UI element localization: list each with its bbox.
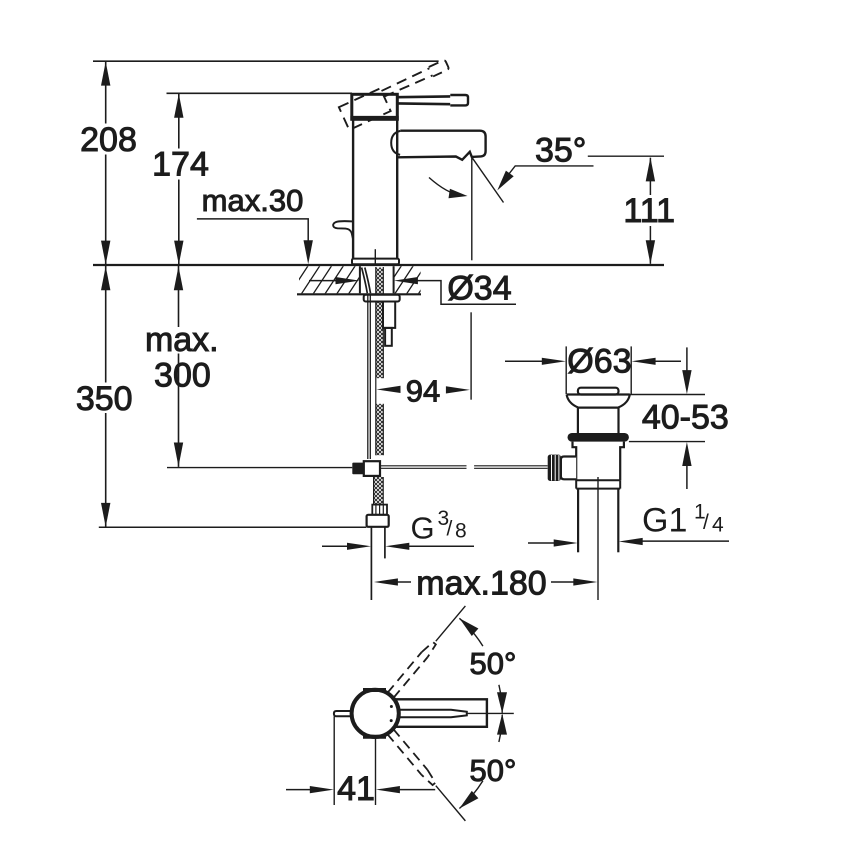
dimension max.180 line and arrows [395,581,411,583]
top view cartridge dots [390,705,393,708]
pop-up rod ball joint black block [352,463,364,475]
top view handle swung up 50 dashed [388,603,469,697]
spout outline [397,131,485,160]
arrow 50 upper at centerline [497,692,507,713]
hose lower band texture [374,477,384,505]
svg-text:300: 300 [154,357,211,395]
dimension 350 vertical line [105,266,107,527]
pop-up rod curve through counter [362,268,371,294]
aerator vertical reference line [471,157,473,260]
dimension 41 arrows [286,789,313,791]
arrow 111 bottom [646,240,655,264]
svg-text:94: 94 [406,374,440,409]
drain center rod and extension line [597,477,599,600]
svg-text:G: G [411,511,435,546]
handle block [352,94,398,119]
counter hatching [288,264,438,296]
counter bottom line [297,293,421,295]
top view pop-up stub [334,711,352,716]
dimension D34 left arrow [309,280,338,282]
svg-text:max.180: max.180 [416,565,546,603]
pop-up rod guide tube [383,302,395,328]
drain flange [567,395,630,408]
label G1 1/4 [642,501,724,540]
dimension max.300 vertical line [178,266,180,467]
braided hose texture bands [376,268,384,456]
dimension D34 right arrow and leader [394,277,418,284]
top view centerline right [467,712,514,714]
pop-up rod hook on body [333,221,353,238]
wire max.300 bottom reference line to hose joint [167,467,352,469]
dimension 41 extension lines [333,716,335,805]
hose lower band boundary [374,477,384,505]
arrow 208 top [101,62,110,86]
dimension 40-53 arrows [686,347,688,371]
wire top reference line at 208 level [93,60,439,62]
wire 35 label underline and leader [503,166,594,182]
svg-text:max.30: max.30 [202,183,304,218]
50 lower thin line [436,786,466,821]
svg-text:max.: max. [145,321,219,359]
arrow 208 bottom [101,241,110,265]
svg-text:Ø63: Ø63 [567,343,631,381]
drain tailpipe [577,489,579,553]
top view circle top flat [363,688,386,692]
handle lever end cap [450,95,468,105]
wire max.30 underline leader [197,219,308,245]
dimension G3/8 arrows [322,545,350,547]
faucet base flange [352,259,399,265]
svg-text:/: / [703,511,709,534]
svg-text:G1: G1 [642,502,687,540]
svg-text:40-53: 40-53 [642,399,729,437]
label G3/8 [411,507,467,546]
spout left end arc at body [391,131,400,155]
dimension 208 vertical line [105,61,107,265]
svg-text:Ø34: Ø34 [447,270,511,308]
arrow 350 bottom [101,503,110,527]
wire 94 right extension line [470,312,472,399]
drain neck [577,408,579,434]
drain body collar lines [576,480,620,488]
top view faucet body circle [352,690,399,737]
connector tube G3/8 [370,527,372,600]
svg-text:208: 208 [80,121,137,159]
50 upper thin line [436,606,466,641]
svg-text:174: 174 [152,146,209,184]
svg-text:8: 8 [455,520,467,543]
counter hole left edge [359,266,361,293]
top view handle swung down 50 dashed [387,729,468,823]
svg-text:35°: 35° [535,132,586,170]
wire 35 right reference line [588,155,664,157]
faucet body column [353,120,397,259]
dimension D63 extension lines [565,346,567,394]
dimension 50 upper arc [459,618,502,713]
arrow 111 top [646,157,655,181]
drain rod knurled nut [548,455,561,481]
drain body [573,442,624,481]
arrow 50 lower at line [459,791,478,809]
angle swing arc arrow [429,178,461,196]
arrowhead of 35 leader [497,171,513,191]
wire 174 reference line at handle top [167,92,353,94]
hose end ridged nipple [372,505,387,515]
svg-text:111: 111 [623,192,675,230]
counter hole right edge [393,266,395,293]
drain pop-up cap [578,388,619,395]
dimension 50 lower arc [459,715,502,809]
arrow 174 top [174,94,183,118]
svg-text:41: 41 [337,770,375,808]
dimension 94 arrows [377,386,401,393]
svg-text:50°: 50° [470,646,517,681]
faucet centerline tick above counter [374,249,376,264]
braided hose boundary lines [376,267,384,455]
drain seal ring (black) [568,433,629,442]
wire 350 bottom reference line [99,526,367,528]
svg-text:4: 4 [712,514,724,537]
dimension 174 vertical line [178,93,180,265]
pop-up vertical rod below counter [368,294,371,459]
top view circle bottom flat [363,735,386,739]
arrow max.30 down to counter [304,240,313,264]
arrow 50 upper at line [459,618,478,636]
aerator 35 degree line [472,157,504,202]
drain rod boss [561,457,576,480]
svg-text:50°: 50° [470,753,517,788]
arrow max.300 top [174,266,183,290]
arrow 174 bottom [174,241,183,265]
handle lever rod [397,96,450,104]
handle raised position dashed outline [339,59,455,130]
arrowhead of swing arc [449,189,468,199]
arrow 350 top [101,266,110,290]
dimension G1 1/4 arrows [528,542,556,544]
svg-text:350: 350 [76,380,133,418]
shank locknut under counter [364,295,400,302]
arrow max.300 bottom [174,443,183,467]
dimension D63 arrows [505,360,543,362]
pop-up rod ball joint housing [364,461,380,476]
dimension 111 vertical line [649,158,651,264]
dimension 40-53 reference lines [617,394,705,396]
horizontal pop-up rod to drain [380,466,548,469]
top view handle paddle rectangle [385,699,487,727]
svg-text:/: / [447,518,453,541]
hose connector hex nut [367,515,389,527]
handle block thick bottom edge [350,116,398,121]
arrow 50 lower at centerline [497,714,507,735]
top view handle rod [385,710,467,718]
counter top line [93,264,664,266]
